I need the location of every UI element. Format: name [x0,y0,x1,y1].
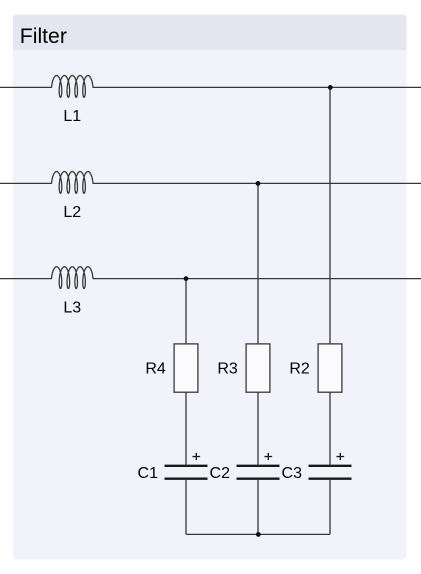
svg-text:R4: R4 [145,361,166,378]
junction node on W1 at R2 branch [328,85,333,90]
inductor L2 [52,172,94,194]
svg-text:C3: C3 [282,465,303,482]
wire C2 bottom vertical [257,480,259,535]
svg-text:L2: L2 [63,204,81,221]
wire R2 to C3 vertical [329,392,331,464]
svg-text:L3: L3 [63,299,81,316]
svg-text:R3: R3 [217,361,238,378]
wire C3 bottom vertical [329,480,331,535]
svg-text:Filter: Filter [20,25,67,48]
capacitor C3 plus polarity mark [337,453,345,460]
inductor L3 [52,267,94,289]
junction node on W3 at R4 branch [184,276,189,281]
svg-text:L1: L1 [63,108,81,125]
wire W3 left segment [0,278,52,280]
wire branch R2 top vertical [329,87,331,344]
wire W1 left segment [0,86,52,88]
junction node on bottom rail at C2 branch [256,532,261,537]
capacitor C3 bottom plate [309,478,352,480]
inductor L1 [52,76,94,98]
wire branch R4 top vertical [185,279,187,344]
resistor R2 [318,344,342,392]
capacitor C1 bottom plate [165,478,208,480]
capacitor C2 bottom plate [237,478,280,480]
capacitor C2 plus polarity mark [265,453,273,460]
wire branch R3 top vertical [257,183,259,344]
junction node on W2 at R3 branch [256,181,261,186]
capacitor C3 top plate [309,465,352,467]
panel header band [13,15,407,51]
svg-text:R2: R2 [289,361,310,378]
wire bottom rail [186,533,330,535]
capacitor C1 top plate [165,465,208,467]
wire W2 left segment [0,182,52,184]
wire W1 right segment [93,86,421,88]
resistor R4 [174,344,198,392]
resistor R3 [246,344,270,392]
svg-text:C2: C2 [210,465,231,482]
wire W2 right segment [93,182,421,184]
svg-text:C1: C1 [138,465,159,482]
wire W3 right segment [93,278,421,280]
capacitor C1 plus polarity mark [193,453,201,460]
wire C1 bottom vertical [185,480,187,535]
wire R3 to C2 vertical [257,392,259,464]
capacitor C2 top plate [237,465,280,467]
wire R4 to C1 vertical [185,392,187,464]
